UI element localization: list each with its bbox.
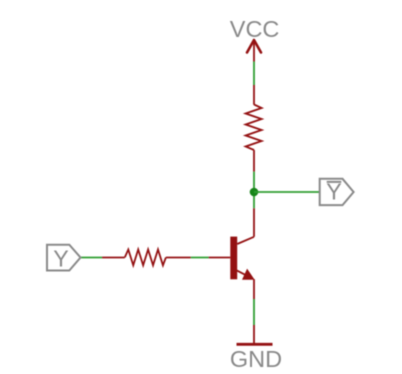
- svg-text:Y: Y: [53, 246, 68, 272]
- svg-text:VCC: VCC: [230, 16, 280, 42]
- svg-text:GND: GND: [230, 346, 282, 372]
